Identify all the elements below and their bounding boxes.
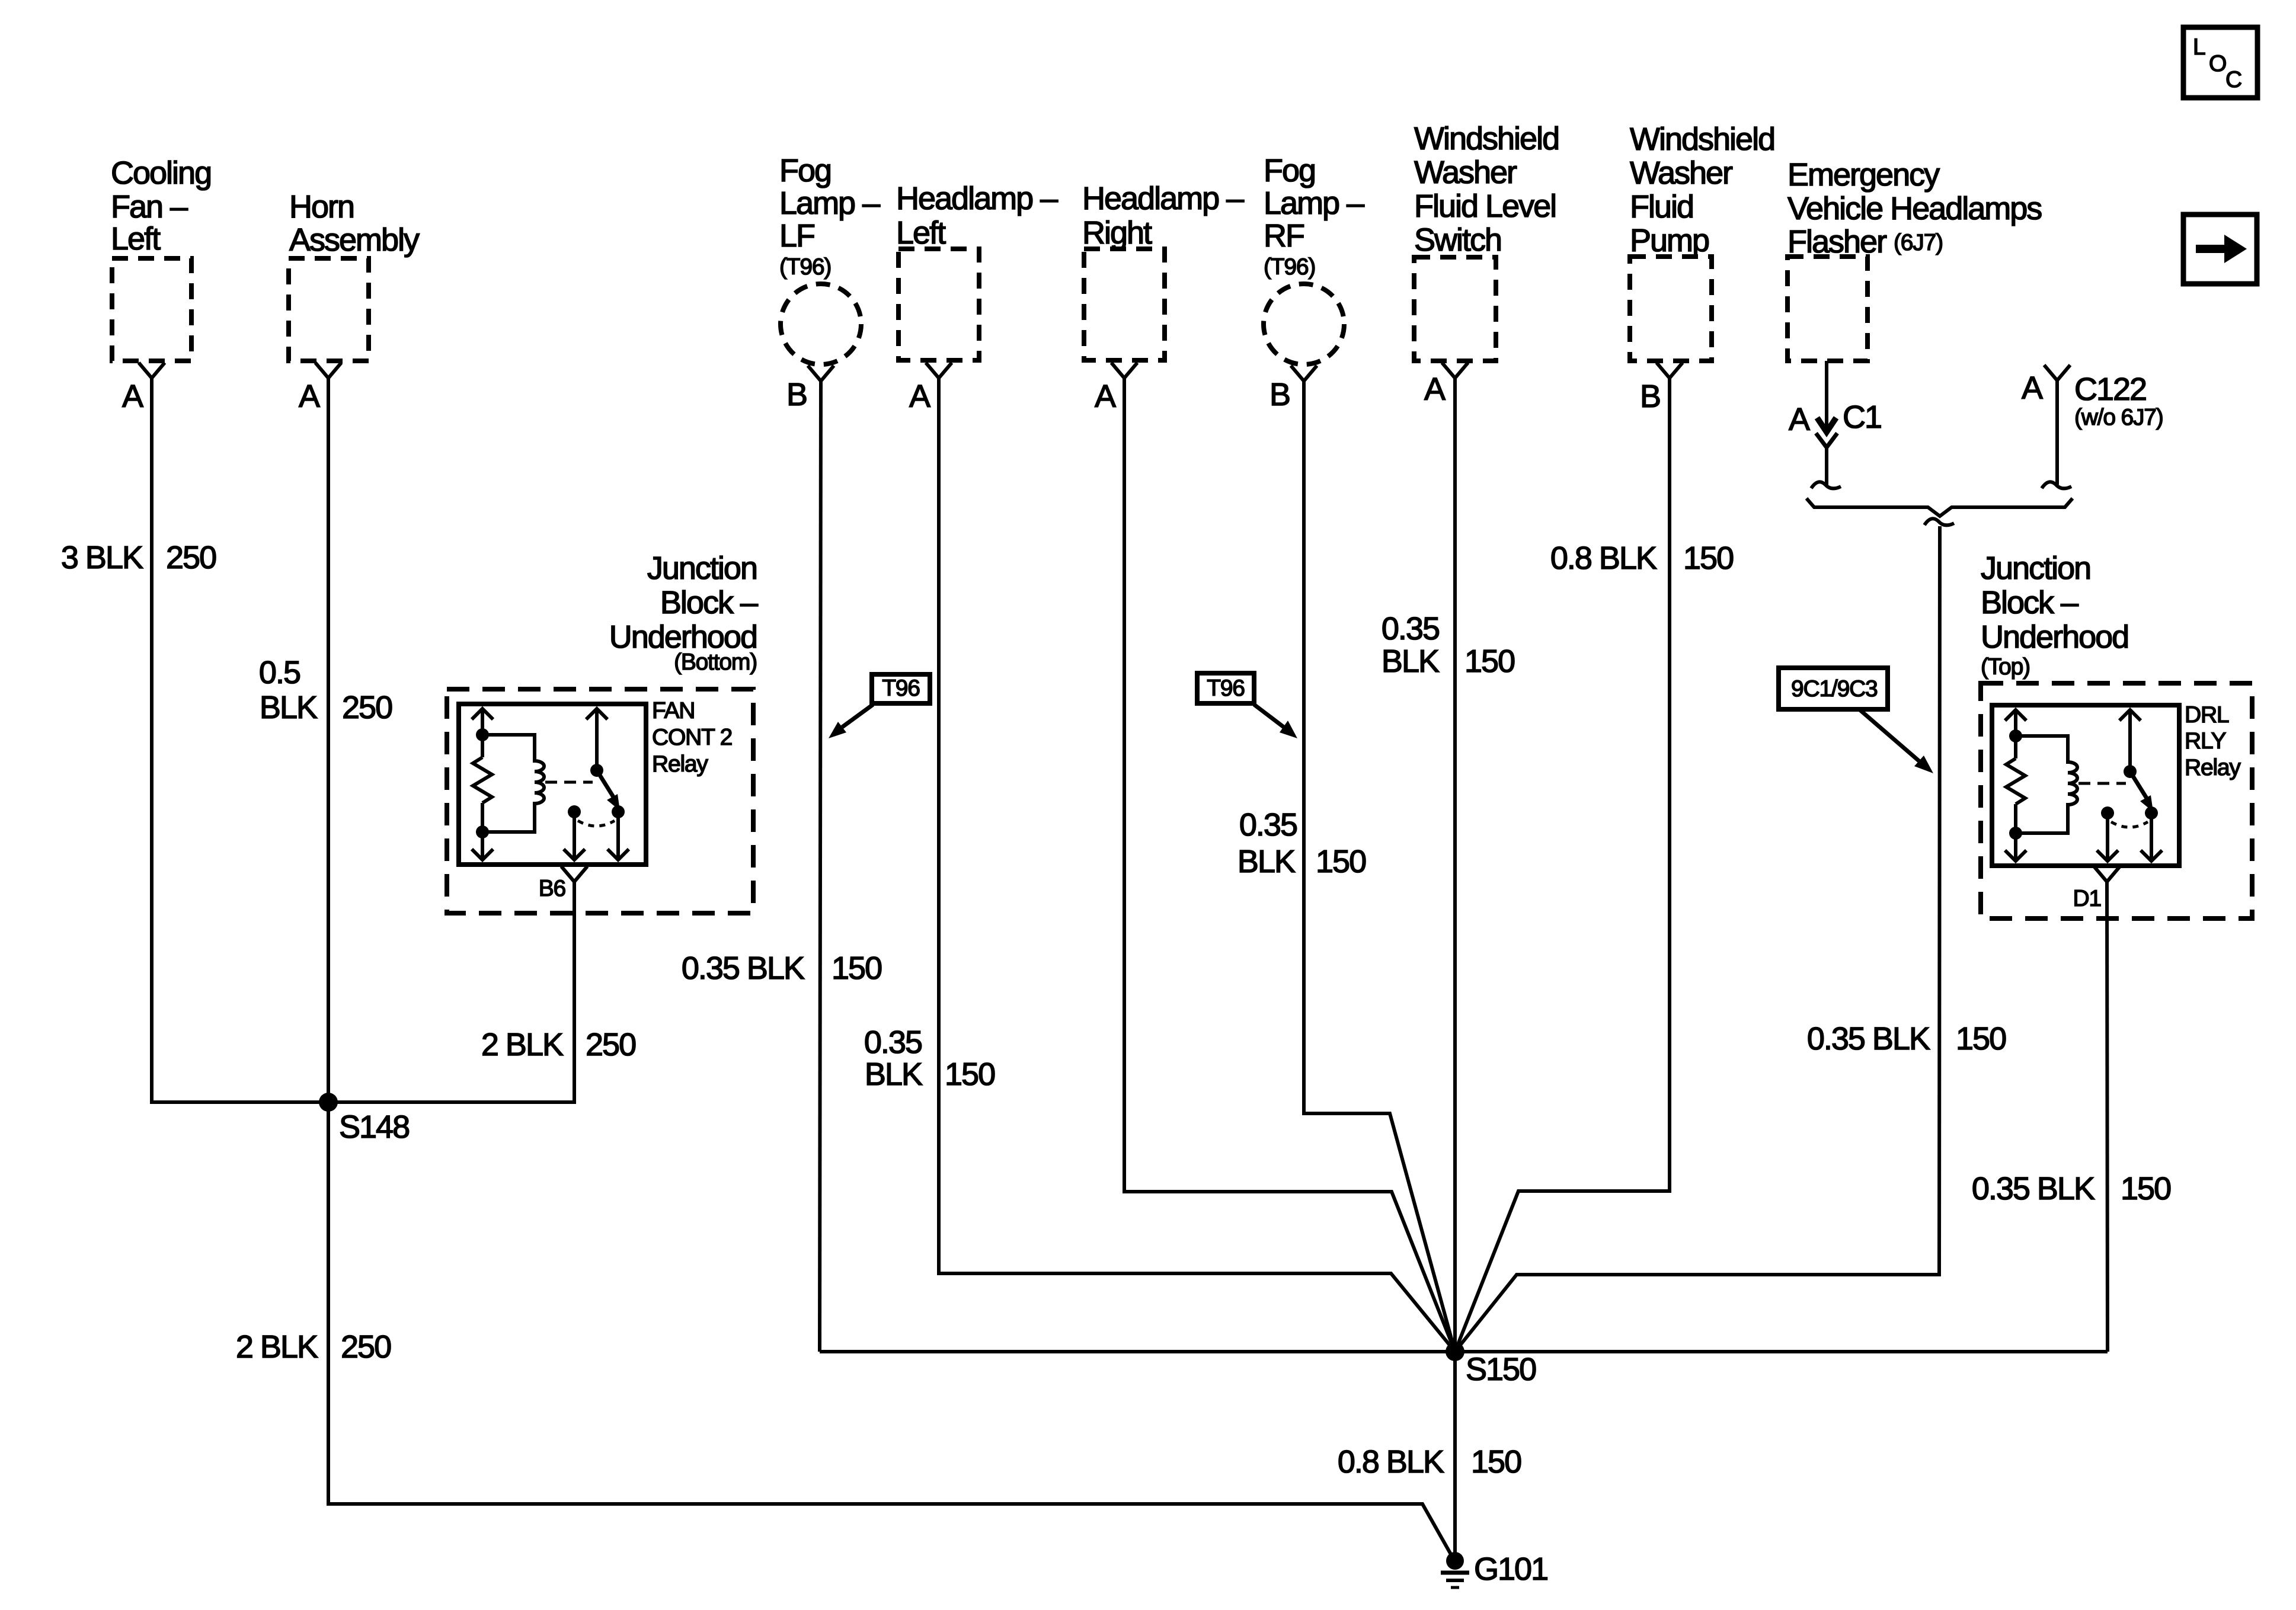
svg-text:Fluid Level: Fluid Level [1414,188,1556,224]
svg-text:0.35: 0.35 [1382,611,1439,646]
svg-text:0.8 BLK: 0.8 BLK [1338,1444,1444,1480]
value label: 0.35 BLK 150 (D1 wire) [1972,1171,2170,1206]
wire break squiggle (merged output) [1924,518,1954,525]
wire: WWFLS straight down to S150 [1453,378,1457,1352]
page tag: LOC box [2183,27,2257,98]
component: Windshield Washer Fluid Pump (dashed box + label) [1630,121,1774,361]
svg-text:T96: T96 [882,676,920,701]
svg-text:Block –: Block – [660,585,758,620]
wire: S150 down to ground G101 [1453,1352,1457,1555]
svg-text:150: 150 [1683,540,1733,576]
pin B of Fog Lamp LF [786,366,834,412]
component: Headlamp - Right (dashed box + label) [1082,181,1244,360]
svg-text:Washer: Washer [1630,155,1733,191]
wire: relay B6 down to S148 [328,882,574,1102]
svg-text:S148: S148 [339,1109,409,1145]
wire: Cooling Fan ground wire down to S148 [152,378,328,1102]
pin A of Headlamp Right [1095,363,1137,414]
svg-text:Relay: Relay [652,751,708,777]
svg-text:G101: G101 [1474,1551,1547,1587]
relay FAN CONT 2 (symbol + label) [459,698,732,865]
svg-text:150: 150 [945,1057,994,1092]
svg-text:C: C [2225,67,2241,92]
svg-text:BLK: BLK [865,1057,923,1092]
value label: 2 BLK 250 (below S148) [236,1329,391,1365]
component: Fog Lamp - LF (dashed circle + label) [779,153,880,364]
pin D1 of Junction Block (Top) [2073,866,2120,911]
svg-text:A: A [2022,370,2043,406]
connector C1 double-chevron arrow with pin A [1789,399,1881,447]
wire: Headlamp Left to S150 [939,378,1455,1352]
component: Fog Lamp - RF (dashed circle + label) [1264,153,1364,364]
wire: Headlamp Right to S150 [1124,378,1455,1352]
svg-text:O: O [2209,51,2226,76]
svg-text:BLK: BLK [1382,644,1440,679]
svg-text:2 BLK: 2 BLK [236,1329,318,1365]
svg-text:BLK: BLK [260,690,318,725]
svg-text:RLY: RLY [2185,728,2227,754]
pin A of WW Fluid Level Switch [1424,363,1468,407]
wire: C122 down to harness brace [2055,380,2059,485]
wire break squiggle (flasher branch) [1811,482,1841,488]
svg-text:BLK: BLK [1237,844,1296,879]
svg-text:(6J7): (6J7) [1894,230,1943,255]
svg-text:C1: C1 [1843,399,1881,435]
svg-text:Emergency: Emergency [1787,157,1940,193]
svg-text:Vehicle Headlamps: Vehicle Headlamps [1787,191,2042,226]
svg-text:T96: T96 [1207,676,1245,701]
svg-text:(Bottom): (Bottom) [674,649,757,675]
svg-text:Washer: Washer [1414,155,1517,190]
pin B6 of Junction Block [539,866,587,901]
svg-text:150: 150 [1471,1444,1521,1480]
wire break squiggle (C122 branch) [2042,482,2071,488]
svg-text:(T96): (T96) [779,254,831,280]
svg-text:250: 250 [586,1027,635,1062]
svg-text:Windshield: Windshield [1414,121,1559,156]
value label: 0.5 BLK 250 [259,655,392,725]
svg-text:(w/o 6J7): (w/o 6J7) [2074,405,2163,430]
svg-text:A: A [122,379,143,414]
svg-text:B: B [1640,379,1660,414]
value label: 0.35 BLK 150 (merged wire) [1807,1021,2006,1057]
svg-text:0.35 BLK: 0.35 BLK [682,950,805,986]
svg-text:Fog: Fog [1264,153,1315,188]
value label: 0.35 BLK 150 (headlamp left wire) [864,1025,994,1092]
svg-text:250: 250 [342,690,392,725]
wire: Fog Lamp RF to S150 [1304,381,1455,1352]
svg-text:A: A [1789,402,1810,437]
value label: 0.35 BLK 150 (fog RF wire) [1237,807,1366,879]
component: Windshield Washer Fluid Level Switch (dashed box + label) [1414,121,1559,361]
value label: 0.35 BLK 150 (fog LF wire) [682,950,881,986]
svg-text:250: 250 [166,540,216,575]
svg-text:Left: Left [896,215,946,251]
wire: Fog Lamp LF down to main rail [820,381,821,1352]
svg-text:Junction: Junction [1981,550,2090,586]
svg-text:Underhood: Underhood [1981,619,2128,655]
tag T96 with arrow (left) [829,674,930,738]
tag T96 with arrow (right) [1197,673,1297,738]
svg-text:Right: Right [1082,215,1152,251]
wire: WW Fluid Pump to S150 [1455,378,1670,1352]
svg-text:A: A [1095,379,1116,414]
pin A of Headlamp Left [909,363,952,414]
wire: below C1 to harness brace [1825,447,1828,485]
svg-text:250: 250 [341,1329,391,1365]
page tag: continuation arrow box [2183,215,2257,284]
svg-text:Assembly: Assembly [289,222,420,258]
svg-text:B: B [786,377,807,412]
svg-text:Relay: Relay [2185,755,2241,780]
svg-text:CONT 2: CONT 2 [652,725,732,750]
svg-text:A: A [909,379,930,414]
svg-text:A: A [1424,372,1446,407]
tag 9C1/9C3 with arrow [1779,668,1933,773]
svg-text:L: L [2193,34,2205,60]
svg-text:0.35 BLK: 0.35 BLK [1972,1171,2095,1206]
component: Horn Assembly (dashed box + label) [289,189,420,361]
svg-text:Lamp –: Lamp – [1264,185,1364,221]
value label: 3 BLK 250 [61,540,216,575]
svg-text:FAN: FAN [652,698,695,724]
svg-text:150: 150 [1464,644,1514,679]
svg-text:S150: S150 [1466,1352,1536,1387]
svg-text:2 BLK: 2 BLK [481,1027,564,1062]
svg-text:Lamp –: Lamp – [779,185,880,221]
svg-text:B6: B6 [539,876,565,901]
component: Headlamp - Left (dashed box + label) [896,181,1058,360]
pin A of Horn Assembly [299,363,341,414]
connector C122 pin A (w/o 6J7) [2022,365,2163,430]
value label: 0.8 BLK 150 (ground wire) [1338,1444,1521,1480]
svg-text:3 BLK: 3 BLK [61,540,143,575]
svg-text:Headlamp –: Headlamp – [1082,181,1244,216]
value label: 0.8 BLK 150 (pump wire) [1550,540,1733,576]
svg-text:DRL: DRL [2185,702,2229,728]
svg-text:0.35 BLK: 0.35 BLK [1807,1021,1930,1057]
svg-text:0.8 BLK: 0.8 BLK [1550,540,1657,576]
pin B of Fog Lamp RF [1269,366,1317,412]
svg-text:Horn: Horn [289,189,354,225]
component: Emergency Vehicle Headlamps Flasher (dashed box + label) [1787,157,2042,361]
svg-text:RF: RF [1264,218,1304,254]
component: Cooling Fan - Left (dashed box + label) [111,155,211,361]
relay DRL RLY (symbol + label) [1992,702,2241,866]
svg-text:150: 150 [1316,844,1366,879]
component: Junction Block - Underhood (Bottom) dashed box + label [447,550,758,913]
wire: main ground rail through S150 [820,1350,2108,1353]
ground G101 [1441,1551,1547,1587]
value label: 0.35 BLK 150 (WWFLS wire) [1382,611,1514,679]
svg-text:Switch: Switch [1414,222,1501,258]
svg-text:Pump: Pump [1630,223,1709,258]
harness merge brace [1806,498,2073,516]
pin A of Cooling Fan [122,363,165,414]
svg-text:Fan –: Fan – [111,189,188,225]
component: Junction Block - Underhood (Top) dashed box + label [1981,550,2252,918]
svg-text:C122: C122 [2074,372,2146,407]
svg-text:0.5: 0.5 [259,655,300,690]
svg-text:Block –: Block – [1981,585,2078,620]
splice node S150 [1446,1342,1536,1387]
svg-text:Headlamp –: Headlamp – [896,181,1058,216]
svg-text:A: A [299,379,320,414]
value label: 2 BLK 250 (B6 wire) [481,1027,635,1062]
wire: Horn Assembly ground wire through S148 down and right to G101 [328,378,1453,1558]
svg-text:0.35: 0.35 [864,1025,922,1060]
wire: merged flasher/C122 wire down and left to S150 [1455,526,1940,1352]
wire: Flasher output down to connector C1 [1825,361,1828,432]
svg-text:150: 150 [832,950,881,986]
svg-text:B: B [1269,377,1290,412]
svg-text:9C1/9C3: 9C1/9C3 [1791,676,1878,702]
svg-text:LF: LF [779,218,814,254]
svg-text:150: 150 [1956,1021,2006,1057]
svg-text:(Top): (Top) [1981,654,2030,680]
svg-text:Windshield: Windshield [1630,121,1774,157]
pin B of WW Fluid Pump [1640,363,1683,414]
svg-text:Fluid: Fluid [1630,189,1693,225]
svg-text:D1: D1 [2073,886,2101,911]
svg-text:150: 150 [2121,1171,2170,1206]
svg-text:Junction: Junction [647,550,757,586]
wire: relay D1 down to main rail [2107,882,2108,1352]
svg-text:Left: Left [111,221,161,257]
svg-text:Cooling: Cooling [111,155,211,191]
svg-text:Fog: Fog [779,153,831,188]
svg-text:0.35: 0.35 [1239,807,1297,843]
svg-text:(T96): (T96) [1264,254,1315,280]
splice node S148 [319,1093,409,1145]
